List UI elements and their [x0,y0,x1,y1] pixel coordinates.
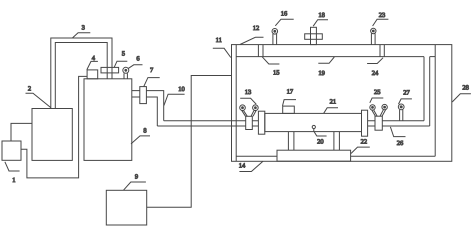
label 4 [87,55,98,70]
label 27 [399,89,412,104]
drain port 20 [312,125,315,131]
label 14 [239,161,263,171]
label 25 [370,89,384,103]
pipe 3 outer line [51,38,112,109]
label 20 [314,132,326,146]
pump/valve unit 13 body [246,116,253,129]
label 21 [324,99,338,114]
pipe 10 upper line [164,120,259,122]
test pipe 21 [265,113,362,131]
label 5 [114,51,127,68]
heater box 4 [87,70,98,79]
label 26 [390,127,405,147]
svg-text:27: 27 [403,89,410,96]
supply box 2 [32,109,72,161]
label 3 [73,25,91,38]
right pipe section upper line [368,120,424,122]
svg-text:17: 17 [287,89,294,96]
valve 25 body [375,116,382,130]
chamber floor left segment [236,155,277,157]
sensor 23 [371,28,376,44]
pipe 10 lower line [157,125,258,127]
chamber inner left wall [235,45,237,162]
return duct left line [423,57,425,121]
svg-text:16: 16 [281,11,288,18]
svg-text:9: 9 [135,174,138,181]
svg-text:28: 28 [462,84,469,91]
controller box 1 [2,141,21,160]
label 18 [313,12,328,26]
svg-text:8: 8 [143,128,146,135]
chamber inner right wall [434,45,436,157]
support leg left [288,132,294,151]
label 2 [26,86,51,108]
duct bottom line right stub [430,56,436,58]
label 6 [128,56,143,69]
svg-text:25: 25 [374,89,381,96]
svg-text:26: 26 [397,140,404,147]
label 8 [131,128,150,144]
chamber floor right segment [351,155,436,157]
svg-text:7: 7 [150,67,154,74]
valve 25 left handwheel [370,105,377,116]
valve 13 left handwheel [240,105,248,116]
svg-text:1: 1 [12,177,15,184]
svg-text:24: 24 [372,70,379,77]
outlet pipe lower line [132,97,158,126]
svg-text:6: 6 [136,56,140,63]
svg-text:22: 22 [361,139,368,146]
svg-text:15: 15 [273,69,280,76]
flange right of test pipe [362,110,368,136]
svg-text:19: 19 [318,70,325,77]
sensor 16 [272,29,278,45]
label 11 [213,37,231,57]
label 22 [351,139,370,154]
label 12 [240,25,264,45]
svg-text:18: 18 [318,12,325,19]
svg-text:5: 5 [122,51,125,58]
label 7 [144,67,160,87]
label 9 [124,174,146,191]
label 17 [283,89,297,106]
svg-text:13: 13 [245,89,252,96]
duct bottom line left segment 19 [236,56,424,58]
label 1 [5,162,20,184]
svg-text:14: 14 [239,163,246,170]
label 28 [452,84,471,102]
label 16 [275,11,293,26]
pump box 9 [106,190,146,225]
base plate 22 [277,150,351,161]
svg-text:12: 12 [253,25,260,32]
svg-text:11: 11 [216,37,222,44]
svg-text:3: 3 [82,25,85,32]
label 10 [164,86,185,106]
right pipe section lower line [368,125,430,127]
outlet pipe with valve 7, upper line [132,91,164,121]
water tank 8 [84,79,132,161]
svg-text:20: 20 [317,139,324,146]
svg-text:21: 21 [330,99,337,106]
port fitting 18 [305,27,323,44]
wire box9 to chamber [147,76,232,208]
svg-text:2: 2 [28,86,31,93]
label 24 [367,58,383,77]
valve 7 [140,87,147,104]
wire box1 top to box2 [11,123,32,141]
label 15 [262,57,279,77]
label 23 [373,12,389,26]
duct screen 24 [380,45,384,57]
label 13 [240,89,256,104]
label 19 [318,57,334,77]
wire box1 right to heater box 4 [21,76,87,177]
duct screen 15 [258,45,263,57]
flange left of test pipe [258,111,264,134]
svg-text:10: 10 [178,86,185,93]
pipe 3 inner line [55,43,107,109]
chamber outer wall 12/28 [232,45,452,162]
sensor 27 [398,104,404,121]
flange 5 [101,67,119,73]
sensor boss 17 [283,106,295,113]
return duct right line [429,57,431,126]
gauge 6 [123,67,129,79]
valve 13 right handwheel [251,105,258,116]
valve 25 right handwheel [380,104,387,116]
support leg right [334,132,340,151]
svg-text:23: 23 [379,12,386,19]
